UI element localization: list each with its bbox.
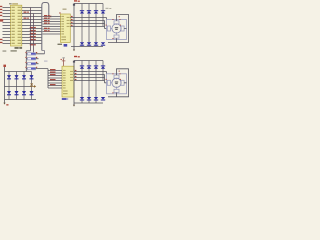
- IC U1 body: [11, 5, 22, 46]
- IC U2 right wires to motor 1: [70, 18, 107, 29]
- label below U3: [62, 98, 67, 100]
- text left of U1 bottom: [3, 50, 7, 51]
- orange connector arrows: [30, 83, 34, 86]
- motor M1 common wiring: [108, 15, 129, 43]
- IC U2 left net labels (red): [44, 15, 50, 31]
- gnd symbol red: [3, 103, 5, 105]
- vcc arrow symbol into U3: [62, 59, 66, 67]
- matrix diodes row 1: [7, 75, 34, 79]
- diodes D row 1 (up): [80, 10, 105, 13]
- U2 pin 1 number: [59, 12, 60, 13]
- blue power mark below U2: [64, 44, 68, 47]
- motor M1 label: [106, 8, 109, 9]
- matrix diodes row 2: [7, 91, 34, 95]
- motor M2 center text: [115, 82, 118, 83]
- diode block 1 rails: [71, 4, 103, 50]
- motor M1 center text: [115, 27, 118, 28]
- diode block 2 columns: [82, 61, 103, 104]
- wire corner to resistor rail: [26, 51, 30, 72]
- faint text near loop bottom: [44, 61, 48, 62]
- IC U2 refdes label: [63, 9, 67, 10]
- IC U1 right pin wires: [22, 8, 42, 44]
- matrix rails: [5, 72, 37, 100]
- diode block 2: VCC text: [74, 56, 77, 57]
- IC U1 right net labels (red): [24, 12, 36, 46]
- key/diode matrix: vcc symbol: [3, 65, 6, 67]
- IC U2 body: [61, 14, 71, 42]
- IC U2 right pin numbers: [71, 16, 73, 26]
- vertical nets from U1 right: [31, 8, 34, 53]
- IC U1 left net labels (red): [0, 6, 3, 43]
- junction X at loop end: [50, 16, 52, 18]
- motor M1: [107, 20, 127, 40]
- diodes D row 4 (down): [80, 97, 105, 101]
- label below U2: [58, 44, 63, 45]
- loop bottom wire: [42, 51, 45, 54]
- label above U1: [9, 3, 12, 4]
- motor M2: [107, 74, 127, 94]
- diodes D row 2 (down): [80, 42, 105, 46]
- IC U3 left wires: [48, 69, 62, 88]
- IC U3 inner marks: [63, 70, 73, 94]
- diode block 1: VCC text: [74, 0, 77, 1]
- IC U1 inner pin name marks: [12, 7, 21, 44]
- red text below rail 2: [73, 105, 75, 107]
- diodes D row 3 (up): [80, 65, 105, 68]
- motor M2 common wiring: [108, 69, 129, 97]
- IC U2 inner pin marks: [61, 16, 69, 40]
- IC U3 right wires to motor 2: [74, 72, 107, 83]
- motor M2 red pin dots: [106, 73, 121, 93]
- IC U1 refdes label: [12, 3, 18, 5]
- motor M1 red pin dots: [106, 19, 121, 39]
- diode block 1 columns: [82, 4, 103, 47]
- label below U1: [15, 47, 19, 49]
- diode block 2 rails: [74, 61, 103, 107]
- IC U3 right pin numbers: [75, 70, 77, 80]
- resistor bank: [25, 52, 48, 70]
- red text below rail: [73, 50, 75, 52]
- big loop wire: [42, 3, 49, 51]
- IC U3 body: [62, 66, 74, 97]
- matrix columns: [9, 72, 32, 100]
- IC U1 left pin wires: [3, 8, 11, 44]
- IC U3 left net labels (red): [50, 69, 56, 85]
- matrix left rail: [4, 67, 6, 103]
- IC U2 left pin wires: [43, 17, 61, 35]
